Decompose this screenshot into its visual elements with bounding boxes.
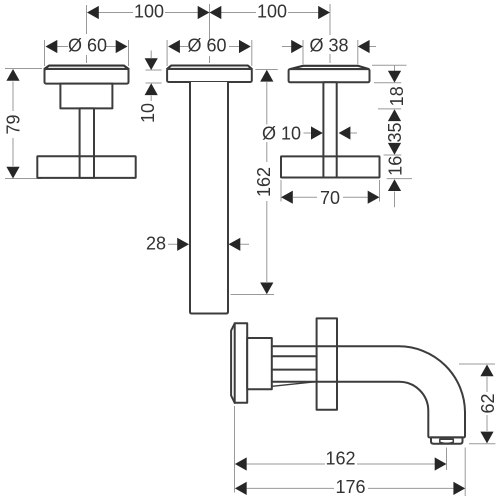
- svg-text:Ø 38: Ø 38: [309, 36, 348, 56]
- svg-text:162: 162: [325, 449, 355, 469]
- svg-text:18: 18: [387, 86, 407, 106]
- svg-text:70: 70: [320, 188, 340, 208]
- svg-text:Ø 10: Ø 10: [262, 124, 301, 144]
- svg-text:35: 35: [385, 122, 405, 142]
- svg-text:100: 100: [134, 2, 164, 22]
- svg-text:62: 62: [478, 393, 498, 413]
- svg-text:100: 100: [257, 2, 287, 22]
- svg-text:10: 10: [138, 103, 158, 123]
- svg-text:79: 79: [4, 114, 24, 134]
- svg-text:176: 176: [335, 477, 365, 497]
- svg-text:162: 162: [254, 167, 274, 197]
- svg-text:16: 16: [386, 156, 406, 176]
- svg-text:28: 28: [146, 234, 166, 254]
- svg-text:Ø 60: Ø 60: [68, 36, 107, 56]
- svg-text:Ø 60: Ø 60: [187, 36, 226, 56]
